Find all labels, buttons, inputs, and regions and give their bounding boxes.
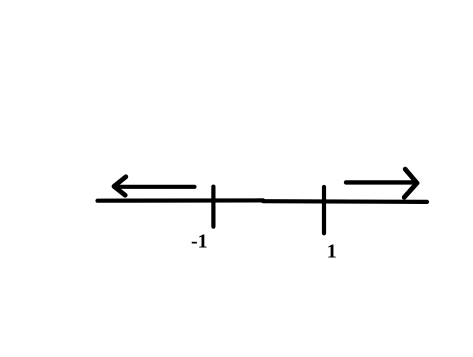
svg-text:1: 1 (327, 241, 337, 263)
svg-text:-1: -1 (191, 231, 208, 253)
